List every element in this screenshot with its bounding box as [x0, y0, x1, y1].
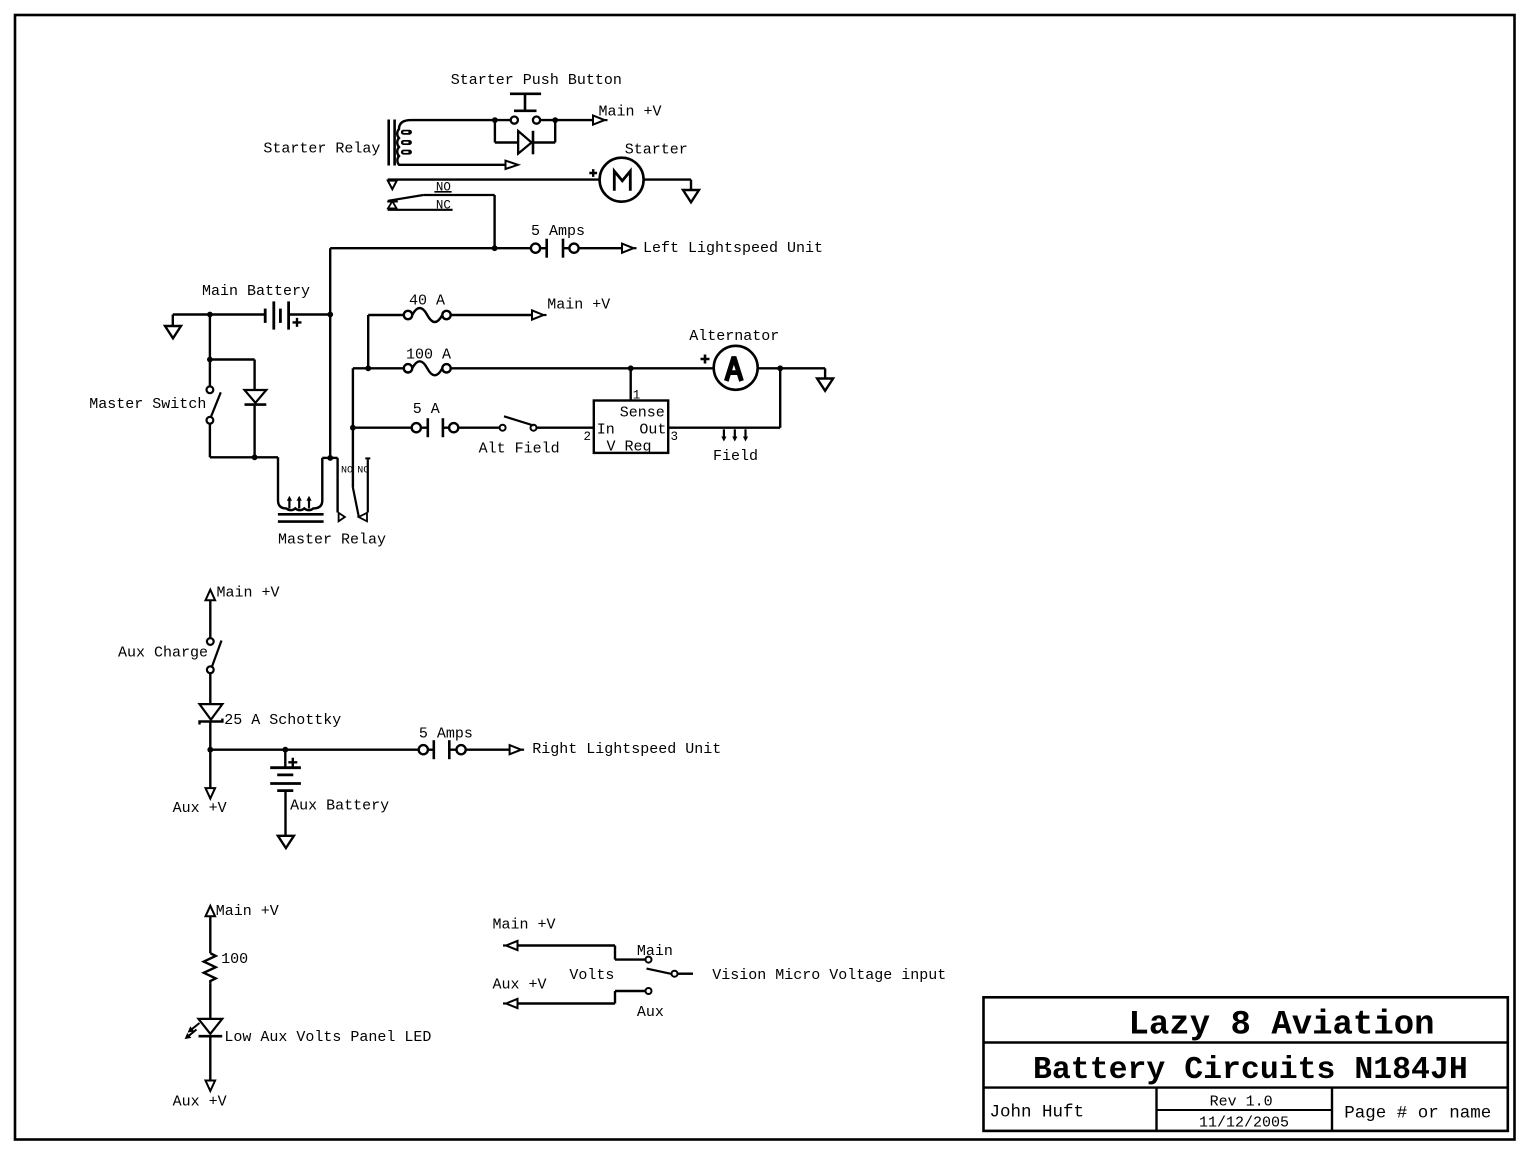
net arrow Aux +V	[206, 788, 216, 799]
svg-text:5 Amps: 5 Amps	[419, 725, 473, 742]
wire schottky to bus	[209, 722, 211, 750]
label Rev 1.0	[1210, 1093, 1273, 1110]
node junction right of push button	[552, 117, 558, 123]
arrow NC contact	[359, 513, 367, 522]
wire main vertical feed	[329, 248, 331, 458]
LED D4 emission arrows	[185, 1023, 200, 1039]
svg-text:Vision Micro Voltage input: Vision Micro Voltage input	[712, 967, 946, 984]
label Main vision	[637, 943, 673, 960]
fuse F1 5A left lightspeed	[531, 239, 579, 258]
relay contact common triangle	[388, 201, 397, 208]
title block row divider 1	[984, 1041, 1508, 1043]
underline NO	[434, 191, 451, 193]
node diode top tee	[207, 357, 213, 363]
net arrow Main +V	[593, 116, 608, 125]
svg-text:Lazy 8 Aviation: Lazy 8 Aviation	[1129, 1007, 1435, 1045]
label In	[597, 421, 615, 438]
label NO starter relay	[436, 181, 451, 195]
wire 100A to alternator	[451, 367, 714, 369]
label Page # or name	[1344, 1104, 1491, 1124]
diode D2 master	[245, 390, 267, 405]
title block outer box	[984, 997, 1508, 1131]
node aux battery tee	[282, 747, 288, 753]
aux charge switch terminals	[207, 638, 214, 673]
wire 40A riser	[368, 315, 404, 368]
label + aux battery	[288, 758, 297, 767]
svg-text:NO: NO	[341, 465, 353, 476]
relay K2 coil loop 3	[306, 496, 311, 509]
svg-text:Aux +V: Aux +V	[493, 977, 547, 994]
label V Reg	[607, 439, 652, 456]
relay K2 coil loop 1	[287, 496, 292, 509]
svg-text:Field: Field	[713, 448, 758, 465]
relay contact pivot tick	[387, 201, 398, 203]
wire aux volts	[518, 991, 646, 1004]
label 5 A	[413, 401, 440, 418]
svg-text:100 A: 100 A	[406, 347, 451, 364]
svg-text:Low Aux Volts Panel LED: Low Aux Volts Panel LED	[224, 1029, 431, 1046]
label 5 Amps left	[531, 223, 585, 240]
battery B2 aux plates	[270, 768, 301, 791]
label NC master relay	[357, 465, 369, 476]
svg-text:Starter: Starter	[625, 142, 688, 159]
node field tee	[777, 365, 783, 371]
relay NO contact line	[423, 195, 494, 248]
svg-text:100: 100	[221, 951, 248, 968]
regulator U1 V Reg box	[594, 401, 668, 453]
field coil L1 loop 1	[721, 429, 726, 441]
diode D1 across push button	[518, 131, 533, 155]
svg-text:1: 1	[633, 389, 641, 403]
label + alternator	[701, 355, 710, 364]
svg-text:Volts: Volts	[569, 967, 614, 984]
title block vertical divider right	[1331, 1088, 1333, 1131]
svg-text:Aux Charge: Aux Charge	[118, 644, 208, 661]
wire motor to ground	[644, 180, 691, 190]
arrow Aux +V vision	[503, 999, 518, 1008]
label John Huft	[990, 1103, 1085, 1123]
wire vision switch stub	[678, 973, 694, 975]
label NC starter relay	[436, 198, 451, 212]
pin 2 V Reg	[584, 430, 592, 444]
vision switch Aux terminal	[646, 988, 652, 994]
svg-text:5 Amps: 5 Amps	[531, 223, 585, 240]
wire main volts	[518, 946, 646, 960]
label Aux +V	[173, 800, 227, 817]
wire relay common arm	[353, 368, 359, 517]
node aux bus left	[207, 747, 213, 753]
wire V Reg out to field	[668, 427, 780, 429]
svg-text:Starter Relay: Starter Relay	[263, 141, 380, 158]
relay K2 coil outline	[278, 457, 322, 510]
svg-text:Aux: Aux	[637, 1004, 664, 1021]
relay K1 core bars	[389, 120, 395, 166]
node battery plus tee	[327, 312, 333, 318]
label Sense	[620, 404, 665, 421]
wire 100A row left	[353, 367, 404, 369]
label Field	[713, 448, 758, 465]
label Low Aux Volts Panel LED	[224, 1029, 431, 1046]
svg-text:3: 3	[671, 430, 679, 444]
wire fuse to arrow left lightspeed	[579, 247, 622, 249]
label Battery Circuits N184JH	[1033, 1053, 1468, 1088]
svg-text:V Reg: V Reg	[607, 439, 652, 456]
relay K1 coil loop 1	[401, 130, 412, 135]
label Main +V vision	[493, 917, 556, 934]
svg-text:Sense: Sense	[620, 404, 665, 421]
title block rev date divider	[1157, 1109, 1333, 1111]
wire diode bypass left leg	[495, 120, 517, 142]
relay contact arm	[388, 195, 423, 201]
pin 1 V Reg	[633, 389, 641, 403]
ground main battery	[165, 326, 181, 338]
svg-text:Aux +V: Aux +V	[173, 1094, 227, 1111]
node V Reg sense tee	[628, 365, 634, 371]
label 100 resistor	[221, 951, 248, 968]
svg-text:Out: Out	[639, 421, 666, 438]
wire fuse to arrow right lightspeed	[466, 749, 510, 751]
svg-text:Main Battery: Main Battery	[202, 283, 310, 300]
wire 40A to arrow	[451, 314, 532, 316]
net arrow Aux +V led	[206, 1081, 216, 1092]
title block vertical divider left	[1155, 1088, 1157, 1131]
svg-text:Starter Push Button: Starter Push Button	[451, 72, 622, 89]
svg-text:Master Switch: Master Switch	[89, 396, 206, 413]
arrow Main +V vision	[503, 941, 518, 950]
push button SW1 terminals	[511, 117, 540, 124]
label Starter	[625, 142, 688, 159]
wire battery to switch	[209, 315, 211, 387]
label Volts	[569, 967, 614, 984]
svg-text:Left Lightspeed Unit: Left Lightspeed Unit	[643, 240, 823, 257]
title block row divider 2	[984, 1086, 1508, 1088]
arrow to Right Lightspeed Unit	[510, 745, 524, 754]
node 40A tee on 100A wire	[365, 365, 371, 371]
wire resistor to LED	[209, 983, 211, 1019]
label Alternator	[689, 328, 779, 345]
svg-text:Aux +V: Aux +V	[173, 800, 227, 817]
svg-text:Aux Battery: Aux Battery	[290, 798, 389, 815]
label Starter Push Button	[451, 72, 622, 89]
label 11/12/2005	[1199, 1115, 1289, 1132]
wire relay coil bottom	[411, 164, 506, 166]
wire relay coil top to push button	[411, 119, 511, 121]
svg-text:Main +V: Main +V	[547, 297, 610, 314]
label NO master relay	[341, 465, 353, 476]
alt field switch terminals	[500, 425, 537, 431]
wire NO contact stub	[322, 458, 337, 513]
push button SW1 plunger	[510, 94, 541, 111]
label 100 A	[406, 347, 451, 364]
wire battery row	[173, 313, 330, 315]
svg-text:Right Lightspeed Unit: Right Lightspeed Unit	[532, 741, 721, 758]
label + main battery	[293, 318, 302, 327]
relay NC contact line	[388, 209, 453, 211]
label Aux +V vision	[493, 977, 547, 994]
svg-text:Main +V: Main +V	[493, 917, 556, 934]
svg-text:Main +V: Main +V	[217, 585, 280, 602]
svg-text:11/12/2005: 11/12/2005	[1199, 1115, 1289, 1132]
wire field to alternator output	[779, 368, 781, 427]
svg-text:Master Relay: Master Relay	[278, 532, 386, 549]
wire switch to relay coil	[210, 424, 278, 458]
svg-text:In: In	[597, 421, 615, 438]
node junction NO drop	[492, 245, 498, 251]
master switch terminals	[207, 386, 214, 423]
relay K2 coil loop 2	[297, 496, 302, 509]
ground aux battery	[278, 836, 294, 848]
relay K1 coil loop 2	[401, 140, 412, 145]
label 40 A	[409, 292, 445, 309]
label Main +V aux	[217, 585, 280, 602]
svg-text:Main: Main	[637, 943, 673, 960]
svg-text:Alternator: Alternator	[689, 328, 779, 345]
svg-text:5 A: 5 A	[413, 401, 440, 418]
field coil L1 loop 3	[743, 429, 748, 441]
wire diode to bottom row	[253, 405, 255, 458]
wire bus to aux battery	[284, 750, 286, 768]
alternator G1 circle	[714, 346, 758, 390]
arrow to Left Lightspeed Unit	[622, 244, 637, 253]
wire 5A row	[353, 427, 412, 429]
svg-text:Page # or name: Page # or name	[1344, 1104, 1491, 1124]
diode D3 schottky	[200, 704, 223, 724]
vision switch pivot	[672, 971, 678, 977]
arrow relay coil bottom terminal	[506, 161, 519, 169]
wire aux +V drop	[209, 750, 211, 788]
svg-text:Battery Circuits N184JH: Battery Circuits N184JH	[1033, 1053, 1468, 1088]
svg-text:25 A Schottky: 25 A Schottky	[224, 712, 341, 729]
label Starter Relay K1	[263, 141, 380, 158]
wire switch to schottky	[209, 673, 211, 704]
label Aux +V led	[173, 1094, 227, 1111]
wire V Reg sense pin	[630, 368, 632, 400]
svg-text:Rev 1.0: Rev 1.0	[1210, 1093, 1273, 1110]
wire LED to Aux +V	[209, 1036, 211, 1080]
field coil L1 loop 2	[732, 429, 737, 441]
net arrow Main +V aux	[206, 590, 216, 601]
alt field switch arm	[504, 416, 534, 425]
vision switch Main terminal	[646, 957, 652, 963]
node junction left of push button	[492, 117, 498, 123]
label Master Switch	[89, 396, 206, 413]
svg-text:Alt Field: Alt Field	[479, 441, 560, 458]
label Lazy 8 Aviation	[1129, 1007, 1435, 1045]
node 5A tee	[350, 425, 356, 431]
svg-text:Main +V: Main +V	[216, 903, 279, 920]
label Aux Charge	[118, 644, 208, 661]
arrow Main +V 40A	[532, 310, 547, 319]
label Master Relay	[278, 532, 386, 549]
label Right Lightspeed Unit	[532, 741, 721, 758]
svg-text:2: 2	[584, 430, 592, 444]
arrow NO contact	[339, 513, 345, 522]
node diode bottom junction	[252, 454, 258, 460]
label + motor positive	[589, 169, 597, 177]
node battery ground tee	[207, 312, 213, 318]
wire aux bus	[210, 749, 418, 751]
master switch arm	[211, 392, 221, 417]
label Aux vision	[637, 1004, 664, 1021]
wire alternator to ground	[758, 368, 825, 378]
label Main +V led	[216, 903, 279, 920]
label Aux Battery	[290, 798, 389, 815]
alternator G1 letter A	[726, 359, 741, 382]
fuse F3 100A	[404, 361, 451, 375]
pin 3 V Reg	[671, 430, 679, 444]
wire NC contact stub	[365, 458, 370, 512]
label 5 Amps right	[419, 725, 473, 742]
wire fuse to alt field switch	[458, 427, 499, 429]
wire arrow to aux switch	[209, 600, 211, 638]
wire arrow to resistor	[209, 916, 211, 953]
resistor R1 100	[204, 953, 216, 983]
svg-text:Main +V: Main +V	[599, 104, 662, 121]
relay K2 core bars	[278, 514, 324, 521]
label Main +V starter	[599, 104, 662, 121]
wire diode bypass right leg	[533, 120, 555, 142]
label Alt Field	[479, 441, 560, 458]
fuse F2 40A	[404, 308, 451, 322]
vision switch arm	[647, 969, 672, 974]
aux charge switch arm	[212, 641, 222, 667]
label 25 A Schottky	[224, 712, 341, 729]
ground alternator	[817, 379, 833, 391]
motor M1 letter M	[614, 171, 630, 191]
wire starter motor feed	[388, 178, 600, 180]
label Out	[639, 421, 666, 438]
fuse F4 5A alt field	[412, 418, 459, 437]
label Left Lightspeed Unit	[643, 240, 823, 257]
LED D4	[199, 1019, 223, 1036]
node master relay NO junction	[327, 455, 333, 461]
label Main +V 40A	[547, 297, 610, 314]
battery B1 plates	[265, 301, 288, 329]
wire NO contact to fuse	[330, 247, 531, 249]
relay K1 coil loop 3	[401, 150, 412, 155]
ground starter motor	[683, 190, 699, 202]
net arrow Main +V led	[206, 906, 216, 917]
label Vision Micro Voltage input	[712, 967, 946, 984]
relay K1 coil outline	[397, 120, 411, 165]
motor M1 circle	[600, 158, 644, 202]
wire aux battery to ground	[284, 791, 286, 836]
label Main Battery	[202, 283, 310, 300]
wire diode top branch	[210, 360, 255, 391]
fuse F5 5A right lightspeed	[419, 740, 466, 759]
svg-text:John Huft: John Huft	[990, 1103, 1085, 1123]
arrow down at wire start	[388, 181, 397, 190]
wire push button to Main +V arrow	[540, 119, 593, 121]
wire switch to V Reg In	[537, 427, 594, 429]
svg-text:40 A: 40 A	[409, 292, 445, 309]
wire ground stub	[172, 315, 174, 327]
